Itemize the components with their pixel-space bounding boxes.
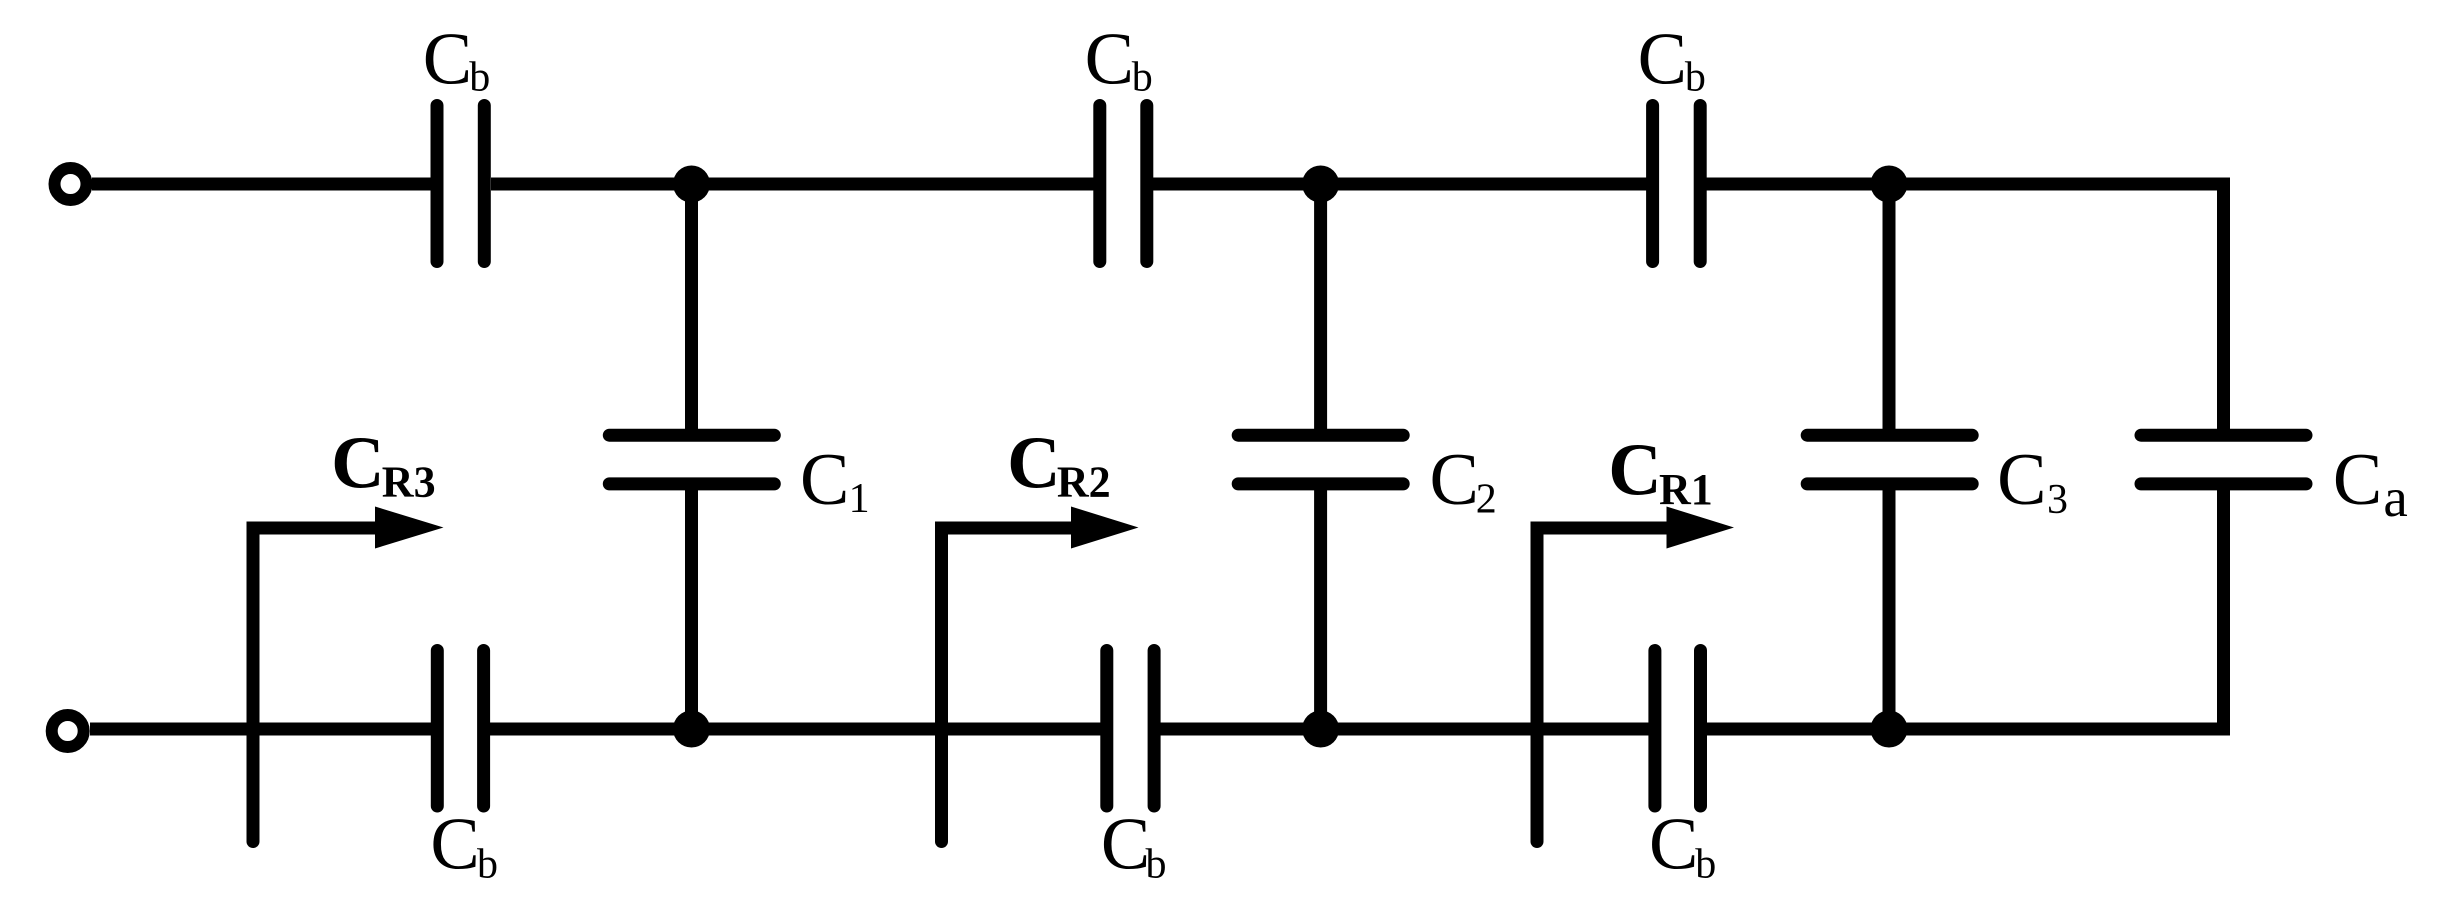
- svg-text:C: C: [1007, 423, 1060, 505]
- svg-text:C: C: [1085, 19, 1134, 101]
- svg-text:C: C: [1430, 439, 1479, 521]
- svg-text:b: b: [1685, 55, 1706, 101]
- svg-text:b: b: [1695, 842, 1716, 888]
- svg-text:b: b: [477, 842, 498, 888]
- svg-text:1: 1: [849, 476, 870, 522]
- svg-text:C: C: [1638, 19, 1687, 101]
- svg-text:b: b: [1132, 55, 1153, 101]
- svg-text:C: C: [423, 19, 472, 101]
- svg-text:2: 2: [1476, 477, 1497, 523]
- svg-text:b: b: [469, 55, 490, 101]
- svg-text:C: C: [331, 423, 384, 505]
- svg-text:C: C: [800, 439, 849, 521]
- svg-text:R3: R3: [382, 457, 436, 506]
- svg-text:C: C: [1101, 803, 1150, 885]
- svg-text:3: 3: [2047, 477, 2068, 523]
- svg-text:b: b: [1146, 842, 1167, 888]
- svg-text:a: a: [2383, 467, 2407, 528]
- svg-text:C: C: [2333, 439, 2382, 521]
- svg-text:C: C: [1608, 430, 1661, 512]
- svg-text:C: C: [1649, 803, 1698, 885]
- svg-text:C: C: [1997, 439, 2046, 521]
- svg-text:R2: R2: [1057, 457, 1111, 506]
- svg-text:R1: R1: [1659, 465, 1713, 514]
- svg-text:C: C: [430, 803, 479, 885]
